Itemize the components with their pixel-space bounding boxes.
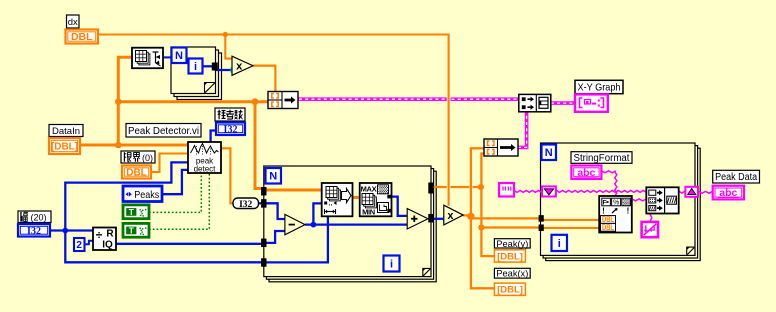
svg-text:X-Y Graph: X-Y Graph bbox=[578, 82, 621, 94]
svg-text:[DBL]: [DBL] bbox=[497, 285, 523, 296]
svg-text:Peak(y): Peak(y) bbox=[496, 239, 528, 250]
svg-text:DBL: DBL bbox=[71, 31, 93, 43]
svg-text:!: ! bbox=[627, 207, 630, 216]
svg-text:I32: I32 bbox=[239, 200, 252, 210]
svg-text:DBL: DBL bbox=[602, 223, 614, 232]
svg-text:R: R bbox=[106, 229, 114, 240]
svg-text:IQ: IQ bbox=[102, 240, 113, 251]
svg-text:DataIn: DataIn bbox=[52, 126, 80, 137]
svg-text:x: x bbox=[447, 210, 454, 222]
svg-text:i: i bbox=[558, 238, 561, 250]
svg-text:dx: dx bbox=[68, 17, 78, 28]
svg-text:T: T bbox=[129, 207, 135, 217]
svg-text:detect: detect bbox=[194, 165, 217, 174]
svg-text:%: % bbox=[613, 200, 619, 207]
svg-text:i: i bbox=[194, 61, 197, 73]
svg-text:I32: I32 bbox=[224, 124, 238, 135]
svg-text:F: F bbox=[603, 199, 607, 206]
svg-text:N: N bbox=[269, 171, 277, 183]
svg-text:N: N bbox=[545, 147, 553, 159]
svg-text:Peak Data: Peak Data bbox=[715, 172, 757, 183]
svg-text:N: N bbox=[175, 50, 183, 62]
svg-text:MIN: MIN bbox=[362, 208, 375, 217]
svg-text:[DBL]: [DBL] bbox=[497, 251, 523, 262]
svg-text:(0): (0) bbox=[142, 153, 153, 163]
svg-text:I32: I32 bbox=[27, 226, 41, 237]
svg-text:2: 2 bbox=[76, 240, 82, 251]
svg-text:DBL: DBL bbox=[126, 168, 147, 179]
svg-text:MAX: MAX bbox=[361, 185, 377, 194]
svg-text:x: x bbox=[236, 61, 243, 73]
svg-text:(20): (20) bbox=[30, 212, 46, 222]
svg-text:Peaks: Peaks bbox=[134, 189, 159, 201]
svg-text:..: .. bbox=[329, 201, 333, 208]
svg-text:[DBL]: [DBL] bbox=[51, 142, 78, 153]
svg-text:StringFormat: StringFormat bbox=[574, 153, 630, 164]
svg-text:Peak Detector.vi: Peak Detector.vi bbox=[128, 126, 199, 137]
svg-text:i: i bbox=[390, 258, 393, 270]
svg-text:T: T bbox=[129, 225, 135, 235]
svg-text:Peak(x): Peak(x) bbox=[496, 269, 528, 280]
